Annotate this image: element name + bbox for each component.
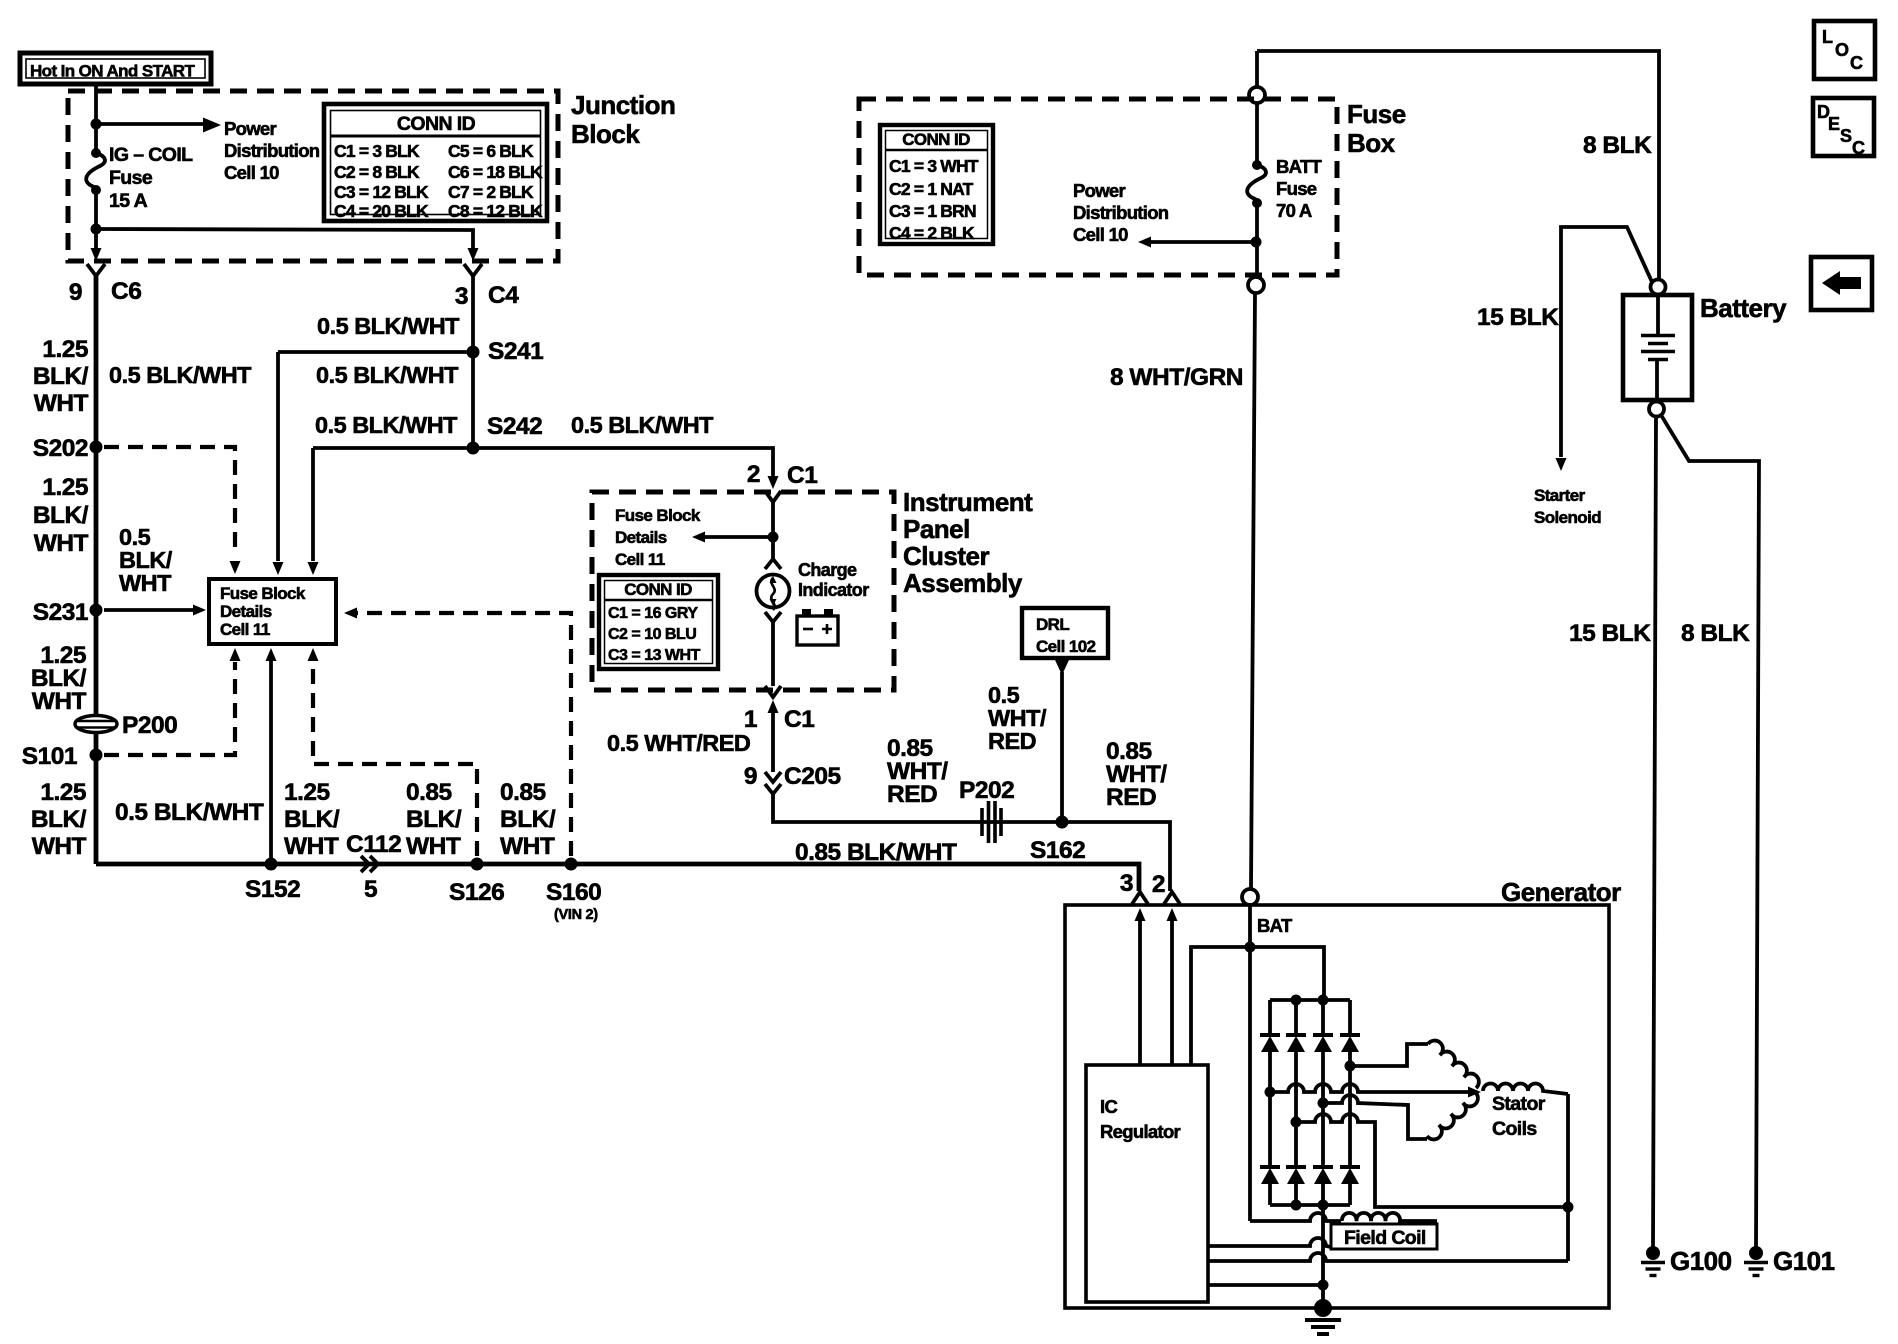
wire: battery to 8 BLK down leg [1661,415,1759,1247]
svg-text:C: C [1850,53,1863,73]
svg-text:Cell 11: Cell 11 [220,620,270,639]
svg-text:S160: S160 [546,879,601,906]
svg-text:Panel: Panel [903,514,970,544]
svg-text:5: 5 [364,876,377,903]
wire: S242 branch down into fuse block details [311,448,315,561]
label 1.25 BLK/WHT (S231-P200) [31,642,87,715]
wire: 15 BLK to starter solenoid [1561,227,1652,457]
svg-text:L: L [1822,27,1833,47]
text: Fuse Block Details Cell 11 (IPC) [615,506,701,569]
svg-text:C: C [1852,138,1865,158]
svg-text:3: 3 [1120,870,1133,897]
svg-text:BLK/: BLK/ [284,806,340,833]
svg-text:1.25: 1.25 [42,336,88,363]
text: Stator Coils [1492,1093,1546,1140]
node on bus at col2 [1291,995,1302,1006]
node: rail junction with phase C [1563,1202,1574,1213]
wire: DRL to S162 [1055,660,1069,822]
wire: S231 arrow to fuse block details [104,608,198,612]
label 0.85 BLK/WHT (C112-S126) [406,779,462,860]
connector below indicator [765,612,781,622]
svg-text:Cell 10: Cell 10 [224,162,279,183]
icon box: LOC [1814,21,1875,79]
svg-text:Cell 10: Cell 10 [1073,224,1128,245]
wire: S242 line to IPC [313,448,773,478]
svg-text:Cluster: Cluster [903,541,989,571]
box: IC Regulator [1086,1065,1208,1302]
label 0.85 WHT/RED (left of P202) [887,735,948,808]
svg-text:8 BLK: 8 BLK [1583,132,1652,159]
svg-text:CONN ID: CONN ID [397,113,476,135]
svg-text:Hot In ON And START: Hot In ON And START [30,62,195,81]
junction block dashed box [68,91,558,261]
dashed: S202 to fuse block details [104,447,235,556]
node: tap junction [91,119,102,130]
svg-text:Fuse: Fuse [109,167,153,189]
node on bottom bus col3 [1318,1200,1329,1211]
box: Field Coil label [1331,1224,1437,1249]
stator right rail [1566,1094,1570,1261]
arrow into C6 [91,248,102,261]
svg-text:C5 = 6 BLK: C5 = 6 BLK [448,141,534,161]
svg-text:C205: C205 [784,763,841,790]
wire: C1-2 into charge indicator [771,502,775,558]
svg-text:BLK/: BLK/ [33,502,89,529]
svg-text:Junction: Junction [571,90,675,120]
svg-text:S202: S202 [33,435,88,462]
svg-text:Indicator: Indicator [798,580,869,600]
rectifier top bus [1270,998,1350,1002]
svg-text:0.85: 0.85 [406,779,452,806]
diode D1 [1260,1000,1280,1092]
icon box: DESC [1813,98,1874,158]
wire: BAT down to field coil [1248,947,1252,1221]
wire: C4 vertical down to S242 [471,276,475,448]
connector pin 2 [1152,871,1180,904]
svg-text:8 WHT/GRN: 8 WHT/GRN [1110,364,1243,391]
svg-text:2: 2 [747,461,760,488]
connector P200 [75,712,177,739]
svg-text:0.5 BLK/WHT: 0.5 BLK/WHT [115,799,264,826]
splice S101 [22,743,103,770]
svg-text:E: E [1828,114,1840,134]
wire: fuse output [94,190,98,248]
wire: arrow to Power Distribution [96,122,203,126]
field coil feed [1250,1213,1341,1221]
svg-text:BAT: BAT [1257,915,1293,936]
svg-text:Coils: Coils [1492,1118,1537,1140]
wire: hot feed into junction block [94,84,98,152]
table: IPC CONN ID [599,575,718,669]
wire: left main vertical C6 to S101 corner [94,276,99,864]
svg-text:C2 = 10 BLU: C2 = 10 BLU [608,626,696,643]
splice S202 [33,435,103,462]
wire: branch to C4 [96,229,473,248]
connector C205 pin 9 [744,763,841,794]
svg-text:S126: S126 [449,879,504,906]
svg-text:RED: RED [1106,784,1156,811]
text: Starter Solenoid [1534,486,1601,527]
terminal: BAT ring [1242,889,1293,936]
fuse box title [1347,99,1406,158]
svg-text:Starter: Starter [1534,486,1586,505]
svg-text:WHT: WHT [119,570,172,596]
wire: C205 down and right to S162 run [773,794,1170,891]
svg-text:WHT: WHT [34,530,89,557]
diode D4 [1340,1000,1360,1066]
svg-text:Charge: Charge [798,560,857,580]
IPC dashed box [592,492,894,690]
svg-text:BLK/: BLK/ [500,806,556,833]
text: Power Distribution Cell 10 [224,118,320,183]
ground G101 [1744,1246,1835,1276]
label 1.25 BLK/WHT (S152 leg) [284,779,340,860]
wire: battery negative to G100 [1653,417,1656,1247]
svg-text:1: 1 [744,706,757,733]
svg-text:WHT: WHT [32,833,87,860]
svg-text:70 A: 70 A [1276,200,1312,221]
svg-text:BLK/: BLK/ [31,806,87,833]
svg-text:Power: Power [224,118,277,139]
stator phase A row [1265,1084,1482,1098]
svg-text:C112: C112 [346,831,401,858]
svg-text:(VIN 2): (VIN 2) [554,907,598,923]
IPC title [903,487,1033,598]
svg-text:C4 = 20 BLK: C4 = 20 BLK [334,201,429,221]
node on bus at col3 [1318,995,1329,1006]
svg-text:3: 3 [455,283,468,310]
fuse: IG-COIL 15A [86,144,193,212]
svg-text:Cell 102: Cell 102 [1036,637,1096,656]
node: junction at fuse output [91,224,102,235]
svg-text:C2 = 8 BLK: C2 = 8 BLK [334,162,420,182]
svg-text:8 BLK: 8 BLK [1681,620,1750,647]
svg-text:Fuse Block: Fuse Block [615,506,701,525]
wire: pin 2 to IC regulator [1167,908,1178,1065]
svg-text:C6: C6 [111,278,141,305]
diode D3 [1313,1000,1333,1103]
wire: IC regulator to stator rail [1208,1253,1568,1261]
svg-text:Generator: Generator [1501,877,1621,907]
label 0.85 BLK/WHT (S126-S160) [500,779,556,860]
text: Power Distribution Cell 10 (fuse box) [1073,180,1169,245]
lower diode D5 [1260,1092,1280,1205]
fuse box dashed box [859,99,1337,275]
svg-text:Distribution: Distribution [224,140,320,161]
svg-text:C1: C1 [787,462,817,489]
wire: S241 branch down into fuse block details [276,352,280,561]
label 1.25 BLK/WHT (S202-S231) [33,474,89,557]
svg-text:S101: S101 [22,743,77,770]
splice S241 [467,338,544,365]
dashed: S160 to fuse block details [352,613,571,856]
svg-text:S231: S231 [33,599,88,626]
connector C4 pin 3 [455,264,519,310]
lower diode D7 [1313,1103,1333,1205]
terminal: fuse box top ring [1249,87,1265,103]
svg-text:9: 9 [744,763,757,790]
label 0.85 WHT/RED (right of S162) [1106,738,1167,811]
wire: power distribution tap [1146,240,1256,244]
connector pin 3 [1120,870,1148,904]
stator coil bottom diagonal [1427,1092,1478,1139]
svg-text:Fuse Block: Fuse Block [220,584,306,603]
svg-text:BLK/: BLK/ [33,363,89,390]
stator phase C row [1291,1114,1567,1207]
node: tap on indicator feed [768,532,779,543]
svg-text:WHT: WHT [32,688,87,715]
label 0.5 BLK/WHT (dashed S202 leg) [119,524,173,596]
wire: S152 up into fuse block details [269,661,273,864]
lower diode D8 [1340,1066,1360,1205]
svg-text:C3 = 1 BRN: C3 = 1 BRN [889,201,976,221]
stator coil top diagonal [1428,1041,1479,1088]
svg-text:CONN ID: CONN ID [624,580,692,599]
wire: bottom main run S101 corner to generator pin 3 [96,864,1139,891]
connector C1 pin 1 (IPC bottom) [744,700,814,772]
svg-text:C3 = 12 BLK: C3 = 12 BLK [334,182,429,202]
svg-text:0.5 BLK/WHT: 0.5 BLK/WHT [109,362,252,388]
label 1.25 BLK/WHT (below S101) [31,779,87,860]
icon box: back arrow [1811,257,1872,310]
svg-text:WHT: WHT [406,833,461,860]
svg-text:WHT: WHT [500,833,555,860]
svg-text:Field Coil: Field Coil [1344,1227,1426,1249]
box: Fuse Block Details Cell 11 [209,579,336,644]
splice S160 (VIN 2) [546,858,601,924]
svg-text:Stator: Stator [1492,1093,1546,1115]
splice S152 [245,858,300,904]
svg-text:Block: Block [571,119,640,149]
svg-text:C2 = 1 NAT: C2 = 1 NAT [889,179,974,199]
lower diode D6 [1286,1122,1306,1205]
svg-text:C8 = 12 BLK: C8 = 12 BLK [448,201,543,221]
rectifier bottom bus [1270,1203,1350,1207]
label 0.5 WHT/RED (DRL leg) [988,682,1047,754]
svg-text:Distribution: Distribution [1073,202,1169,223]
wire: indicator to C1-1 [771,622,775,686]
svg-text:0.5 BLK/WHT: 0.5 BLK/WHT [317,313,460,339]
battery [1623,280,1787,417]
svg-text:Box: Box [1347,128,1396,158]
svg-text:0.85: 0.85 [500,779,546,806]
node: tap on batt fuse output [1251,237,1262,248]
svg-text:Battery: Battery [1700,293,1787,323]
svg-text:1.25: 1.25 [42,474,88,501]
svg-text:C4: C4 [488,282,519,309]
svg-text:0.5 BLK/WHT: 0.5 BLK/WHT [316,362,459,388]
svg-text:S152: S152 [245,876,300,903]
svg-text:1.25: 1.25 [40,779,86,806]
dashed: S101 to fuse block details [104,662,235,755]
wire: 8 WHT/GRN down to generator BAT [1251,293,1255,889]
generator box [1065,905,1609,1308]
svg-text:BLK/: BLK/ [406,806,462,833]
svg-text:Fuse: Fuse [1276,178,1317,199]
svg-text:C1 = 3 WHT: C1 = 3 WHT [889,156,979,176]
svg-text:Fuse: Fuse [1347,99,1406,129]
svg-text:Details: Details [220,602,272,621]
svg-text:C3 = 13 WHT: C3 = 13 WHT [608,647,701,664]
table: fuse box CONN ID [880,125,993,244]
svg-text:DRL: DRL [1036,615,1069,634]
wire: center column to ground [1321,1205,1325,1308]
svg-text:15 BLK: 15 BLK [1477,304,1559,331]
svg-text:RED: RED [887,781,937,808]
connector above indicator [765,559,781,569]
svg-text:S162: S162 [1030,837,1085,864]
svg-text:Power: Power [1073,180,1126,201]
junction block title [571,90,675,149]
svg-text:0.5 BLK/WHT: 0.5 BLK/WHT [571,412,714,438]
text: Charge Indicator [798,560,869,600]
wire: top feed to fuse box [1257,51,1659,279]
icon: battery symbol [797,609,838,645]
svg-text:9: 9 [69,279,82,306]
wire: BAT branch to IC regulator [1191,947,1250,1065]
svg-text:RED: RED [988,728,1036,754]
connector C112 pin 5 [346,831,401,903]
field coil [1342,1213,1437,1221]
svg-text:15 BLK: 15 BLK [1569,620,1651,647]
svg-text:BATT: BATT [1276,156,1323,177]
splice S162 [1030,816,1085,865]
svg-text:Details: Details [615,528,667,547]
wire: IC regulator to ground column [1208,1280,1329,1291]
svg-text:Cell 11: Cell 11 [615,550,665,569]
node on bottom bus col2 [1291,1200,1302,1211]
svg-text:CONN ID: CONN ID [902,130,970,149]
box: DRL Cell 102 [1022,608,1108,658]
dashed: S126 to fuse block details [313,662,477,856]
wire: S241 horizontal [278,350,473,354]
wire: IC regulator field drive [1208,1238,1331,1247]
stator coil horizontal [1483,1084,1568,1095]
stator phase B row [1318,1095,1428,1139]
svg-text:P200: P200 [122,712,177,739]
svg-text:G100: G100 [1670,1246,1732,1276]
wire: BAT branch to rectifier bus [1250,947,1324,1000]
splice S242 [467,413,543,455]
node: BAT junction [1245,942,1256,953]
terminal: fuse box bottom ring [1248,277,1264,293]
svg-text:O: O [1835,40,1849,60]
svg-text:Instrument: Instrument [903,487,1033,517]
connector at IPC bottom edge [765,686,781,697]
svg-text:C1 = 3 BLK: C1 = 3 BLK [334,141,420,161]
wire: tap to fuse block details note [700,535,773,539]
svg-text:0.5 WHT/RED: 0.5 WHT/RED [607,730,750,756]
connector C1 pin 2 (IPC top) [747,461,817,502]
svg-text:15 A: 15 A [109,190,148,212]
svg-text:P202: P202 [959,777,1014,804]
svg-text:WHT: WHT [284,833,339,860]
svg-text:S242: S242 [487,413,542,440]
svg-text:IG – COIL: IG – COIL [109,144,193,166]
fuse: BATT 70A [1247,103,1322,221]
label 1.25 BLK/WHT (C6-S202) [33,336,89,417]
splice S231 [33,599,103,626]
svg-text:S241: S241 [488,338,543,365]
connector C6 pin 9 [69,264,141,306]
svg-text:C7 = 2 BLK: C7 = 2 BLK [448,182,534,202]
charge indicator lamp [757,575,790,611]
svg-text:C4 = 2 BLK: C4 = 2 BLK [889,223,975,243]
wire: col4 phase to stator top [1345,1044,1429,1072]
diode D2 [1286,1000,1306,1122]
svg-text:0.5 BLK/WHT: 0.5 BLK/WHT [315,412,458,438]
generator case ground [1305,1299,1341,1334]
svg-text:1.25: 1.25 [284,779,330,806]
table: junction block CONN ID [324,104,547,221]
svg-text:Assembly: Assembly [903,568,1023,598]
connector P202 [959,777,1014,843]
svg-text:2: 2 [1152,871,1165,898]
svg-text:C1 = 16 GRY: C1 = 16 GRY [608,605,698,622]
wire: fuse to bottom terminal [1255,203,1259,277]
svg-text:C1: C1 [784,706,814,733]
svg-text:WHT: WHT [34,390,89,417]
svg-text:0.85 BLK/WHT: 0.85 BLK/WHT [795,839,957,866]
svg-text:IC: IC [1100,1096,1117,1117]
wire: BAT into generator [1248,905,1252,947]
label box: Hot In ON And START [20,53,211,84]
ground G100 [1641,1246,1732,1276]
wire: pin 3 to IC regulator [1135,908,1146,1065]
svg-text:C6 = 18 BLK: C6 = 18 BLK [448,162,543,182]
svg-text:G101: G101 [1773,1246,1835,1276]
svg-text:Regulator: Regulator [1100,1121,1181,1142]
svg-text:S: S [1840,126,1852,146]
splice S126 [449,858,504,907]
arrow into C4 [468,248,479,261]
svg-text:Solenoid: Solenoid [1534,508,1601,527]
